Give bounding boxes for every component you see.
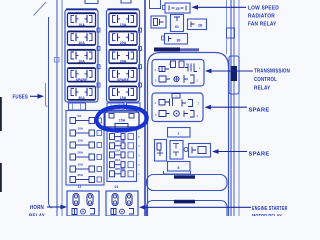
lower band 2	[147, 201, 228, 217]
column 1 side tab 4	[97, 83, 100, 87]
column 2 bottom connector tab	[107, 103, 124, 110]
svg-text:30A: 30A	[78, 96, 85, 100]
wire right short rail top	[226, 0, 228, 54]
mini fuse 10A (left block row 2)	[70, 126, 102, 136]
svg-text:RELAY: RELAY	[254, 86, 271, 92]
svg-text:11: 11	[78, 185, 82, 189]
spare relay 2 left box	[155, 140, 167, 162]
svg-text:15A: 15A	[119, 119, 126, 123]
mini fuse 25A (left block row 6)	[70, 173, 102, 183]
mini block right label 21	[115, 185, 119, 189]
label TRANSMISSION CONTROL RELAY	[254, 69, 290, 92]
horn relay socket	[67, 191, 99, 216]
spare relay 1 pin 4 (left)	[155, 100, 169, 106]
spare relay 2 center contact	[184, 148, 188, 152]
column 1 side tab 3	[97, 65, 100, 69]
column 2 side tab 3	[139, 65, 142, 69]
mini fuse SPARE (right block row 3)	[110, 139, 141, 149]
transmission relay pin 1 (top)	[179, 61, 188, 68]
wire fuse-cover clip line	[46, 83, 48, 107]
arrow to engine starter relay socket	[139, 205, 251, 210]
spare relay 1 body	[152, 93, 203, 122]
svg-text:ENGINE STARTER: ENGINE STARTER	[252, 206, 288, 212]
wire right compartment rounded boundary	[148, 53, 229, 217]
transmission relay center contact	[174, 76, 179, 81]
arrow to fan relay pin 25	[192, 5, 247, 10]
label SPARE upper	[249, 107, 270, 113]
arrow to spare relay 2	[212, 149, 247, 154]
maxi fuse 15A (column 2 row 1)	[109, 13, 137, 27]
spare relay 2 pin 5 (bottom box)	[168, 162, 191, 172]
spare relay 2 right box	[189, 144, 211, 158]
wire right vertical rail 2	[233, 0, 235, 216]
highlight oval annotation	[96, 106, 146, 130]
cover latch with dark fill	[229, 56, 239, 94]
maxi fuse 30A (column 2 row 3)	[109, 50, 137, 64]
maxi fuse column 2 housing	[107, 9, 140, 102]
transmission relay pin 5 (bottom-left)	[155, 76, 170, 83]
spare relay 1 pin 3 (right)	[182, 100, 200, 107]
mini fuse block left housing	[66, 111, 104, 186]
spare relay 1 pin 1 (top tab)	[172, 94, 180, 99]
left image-edge dark mark upper	[0, 97, 2, 131]
maxi fuse column 1 housing	[65, 9, 98, 102]
maxi fuse 30A (column 1 row 5)	[68, 86, 96, 100]
svg-text:10A: 10A	[78, 162, 84, 166]
svg-text:SPARE: SPARE	[75, 78, 88, 82]
mini fuse 15A (left block row 3)	[70, 138, 102, 148]
maxi fuse 20A (column 2 row 2)	[109, 31, 137, 45]
maxi fuse 10A (column 1 row 3)	[68, 50, 96, 64]
svg-text:15A: 15A	[120, 96, 127, 100]
wire right vertical rail 3	[238, 0, 240, 216]
arrow to fuses area	[30, 94, 44, 99]
spare relay 1 pin 5 (bottom-left)	[155, 111, 170, 118]
wire right vertical rail 1	[230, 0, 232, 216]
label HORN RELAY	[29, 205, 45, 219]
maxi fuse 10A (column 1 row 2)	[68, 31, 96, 45]
relay pin box top partial	[150, 0, 161, 9]
circled fuse 15A	[105, 112, 139, 129]
svg-text:15A: 15A	[78, 138, 84, 142]
svg-text:20A: 20A	[115, 158, 121, 162]
wire outer-left diagonal edge	[34, 2, 47, 16]
left rail nub	[55, 58, 60, 63]
maxi fuse SPARE (column 1 row 4)	[68, 68, 96, 82]
left image-edge dark mark lower	[0, 163, 2, 192]
svg-text:28: 28	[198, 24, 202, 28]
svg-text:SPARE: SPARE	[249, 151, 270, 157]
svg-text:SPARE: SPARE	[117, 78, 130, 82]
relay pin 28 (right box)	[188, 19, 207, 30]
svg-text:SPARE: SPARE	[249, 107, 270, 113]
mini fuse 10A (right block row 2)	[110, 130, 141, 140]
label LOW SPEED RADIATOR FAN RELAY	[248, 5, 279, 27]
maxi fuse 15A (column 2 row 5)	[109, 86, 137, 100]
relay pin 61 (center box)	[171, 15, 184, 32]
spare relay 1 center contact	[174, 111, 180, 117]
transmission relay pin 4 (left)	[155, 67, 170, 73]
svg-text:RADIATOR: RADIATOR	[248, 13, 275, 19]
svg-text:30A: 30A	[120, 60, 127, 64]
svg-text:SPARE: SPARE	[115, 167, 125, 171]
column 1 bottom connector tab	[69, 103, 86, 110]
top edge partial box 2	[121, 0, 131, 3]
wire outer-left vertical edge	[49, 17, 52, 208]
svg-text:15A: 15A	[120, 23, 127, 27]
mini fuse 10A (right block row 4)	[110, 148, 141, 158]
svg-text:LOW SPEED: LOW SPEED	[248, 5, 279, 11]
svg-text:20A: 20A	[120, 41, 127, 45]
relay pin 30 (bottom box)	[162, 34, 188, 45]
cover clip square	[227, 28, 235, 38]
svg-text:10A: 10A	[78, 23, 85, 27]
mini fuse 10A (left block row 5)	[70, 162, 102, 172]
mini fuse 20A (right block row 5)	[110, 158, 141, 168]
connector tab 3	[127, 103, 141, 110]
transmission control relay body	[152, 60, 204, 87]
relay pin 25	[163, 3, 191, 13]
relay pin 27 (left box)	[151, 16, 166, 28]
label FUSES	[13, 95, 29, 101]
svg-text:30: 30	[177, 39, 181, 43]
wire center divider	[144, 0, 146, 216]
spare relay 2 bottom notch outline	[164, 171, 191, 174]
svg-text:20A: 20A	[78, 150, 84, 154]
label SPARE lower	[249, 151, 270, 157]
svg-text:SPARE: SPARE	[115, 139, 125, 143]
svg-text:5: 5	[178, 166, 180, 170]
mini fuse 5A (left block row 1)	[70, 114, 102, 124]
maxi fuse 10A (column 1 row 1)	[68, 13, 96, 27]
svg-text:CONTROL: CONTROL	[254, 77, 277, 83]
svg-text:1: 1	[178, 132, 180, 136]
wire left inner vertical 1	[56, 0, 58, 216]
svg-text:TRANSMISSION: TRANSMISSION	[254, 69, 290, 75]
mini fuse 20A (left block row 4)	[70, 150, 102, 160]
svg-text:HORN: HORN	[30, 205, 44, 211]
mini fuse block right housing	[107, 111, 137, 182]
engine starter relay socket	[106, 191, 138, 216]
column 2 side tab 4	[139, 83, 142, 87]
mini fuse SPARE (right block row 6)	[110, 167, 141, 177]
lower band 1 dark tick	[174, 175, 195, 178]
spare relay 1 pin 2 (bottom-right)	[184, 111, 199, 119]
column 1 side tab 1	[97, 28, 100, 32]
arrow to spare relay 1	[205, 105, 248, 110]
maxi fuse SPARE (column 2 row 4)	[109, 68, 137, 82]
lower band 1	[147, 175, 228, 191]
svg-text:FAN RELAY: FAN RELAY	[248, 21, 277, 27]
spare relay 2 pin 1 (top box)	[168, 128, 191, 138]
lower band 2 dark tick	[174, 200, 195, 204]
svg-text:MOTOR RELAY: MOTOR RELAY	[252, 214, 282, 216]
mini block left label 11	[78, 185, 82, 189]
column 1 side tab 2	[97, 46, 100, 50]
svg-text:10A: 10A	[78, 126, 84, 130]
spare relay 2 center box	[170, 141, 183, 160]
transmission relay pin 2 (top)	[169, 61, 176, 68]
column 2 side tab 2	[139, 46, 142, 50]
wire left inner vertical 2	[61, 0, 63, 216]
svg-text:61: 61	[175, 25, 179, 29]
svg-text:10A: 10A	[115, 148, 121, 152]
arrow to horn relay socket	[47, 205, 67, 210]
label ENGINE STARTER RELAY	[252, 206, 288, 220]
arrow to transmission control relay	[205, 69, 253, 74]
svg-text:25A: 25A	[78, 173, 84, 177]
svg-text:10A: 10A	[78, 60, 85, 64]
column 2 side tab 1	[139, 28, 142, 32]
svg-text:21: 21	[115, 185, 119, 189]
svg-text:RELAY: RELAY	[29, 213, 45, 216]
transmission relay pin 2b (bottom-right)	[184, 75, 199, 83]
spare relay 1 center pin	[167, 99, 173, 107]
top edge partial box 1	[85, 0, 98, 4]
svg-text:25: 25	[176, 7, 180, 11]
dark separator bar	[154, 48, 199, 52]
svg-text:FUSES: FUSES	[13, 95, 29, 101]
right block top pin number	[138, 126, 140, 130]
transmission relay pin 3 (right)	[185, 64, 201, 72]
svg-text:10A: 10A	[78, 41, 85, 45]
